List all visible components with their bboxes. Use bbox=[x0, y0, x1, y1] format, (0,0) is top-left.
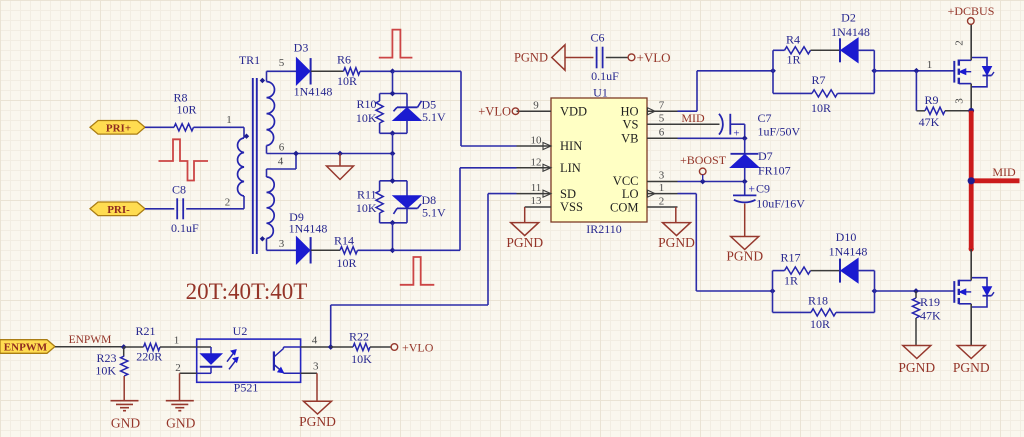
svg-text:R10: R10 bbox=[356, 97, 376, 111]
svg-text:3: 3 bbox=[279, 238, 285, 250]
svg-text:ENPWM: ENPWM bbox=[4, 342, 48, 354]
svg-text:7: 7 bbox=[659, 100, 665, 112]
svg-text:R17: R17 bbox=[780, 250, 800, 264]
svg-text:VB: VB bbox=[621, 132, 638, 146]
svg-text:PRI+: PRI+ bbox=[106, 122, 131, 134]
svg-text:VS: VS bbox=[623, 117, 639, 131]
svg-text:6: 6 bbox=[279, 142, 285, 154]
svg-text:10K: 10K bbox=[351, 352, 372, 366]
svg-text:R6: R6 bbox=[337, 53, 351, 67]
svg-text:C7: C7 bbox=[758, 111, 772, 125]
svg-text:2: 2 bbox=[659, 196, 665, 208]
svg-text:10K: 10K bbox=[356, 111, 377, 125]
svg-text:PGND: PGND bbox=[514, 51, 548, 65]
svg-text:MID: MID bbox=[681, 111, 705, 125]
svg-text:U2: U2 bbox=[233, 324, 248, 338]
svg-text:PGND: PGND bbox=[658, 235, 695, 250]
svg-text:MID: MID bbox=[992, 165, 1016, 179]
svg-text:D3: D3 bbox=[294, 41, 309, 55]
svg-text:IR2110: IR2110 bbox=[586, 222, 622, 236]
svg-text:R4: R4 bbox=[786, 33, 800, 47]
svg-text:1: 1 bbox=[174, 335, 180, 347]
svg-text:SD: SD bbox=[560, 187, 576, 201]
svg-text:4: 4 bbox=[278, 156, 284, 168]
svg-text:20T:40T:40T: 20T:40T:40T bbox=[186, 279, 308, 304]
svg-text:10: 10 bbox=[531, 135, 543, 147]
svg-text:1uF/50V: 1uF/50V bbox=[758, 125, 801, 139]
svg-text:R18: R18 bbox=[808, 294, 828, 308]
svg-text:12: 12 bbox=[531, 156, 542, 168]
svg-text:2: 2 bbox=[175, 362, 181, 374]
svg-text:4: 4 bbox=[312, 335, 318, 347]
svg-text:10K: 10K bbox=[95, 364, 116, 378]
svg-text:LO: LO bbox=[622, 187, 639, 201]
svg-text:+DCBUS: +DCBUS bbox=[948, 4, 995, 18]
svg-text:+VLO: +VLO bbox=[402, 341, 434, 355]
svg-text:11: 11 bbox=[531, 182, 542, 194]
svg-text:13: 13 bbox=[531, 195, 543, 207]
svg-text:PGND: PGND bbox=[898, 360, 935, 375]
svg-text:220R: 220R bbox=[136, 350, 162, 364]
svg-text:1R: 1R bbox=[784, 274, 798, 288]
svg-text:D10: D10 bbox=[836, 230, 857, 244]
svg-text:+VLO: +VLO bbox=[637, 50, 671, 65]
svg-text:0.1uF: 0.1uF bbox=[591, 69, 619, 83]
svg-text:C6: C6 bbox=[590, 31, 604, 45]
svg-text:5: 5 bbox=[279, 57, 285, 69]
svg-text:3: 3 bbox=[313, 360, 319, 372]
svg-text:COM: COM bbox=[610, 201, 638, 215]
svg-text:1N4148: 1N4148 bbox=[829, 245, 868, 259]
svg-text:R7: R7 bbox=[811, 73, 825, 87]
svg-text:1R: 1R bbox=[786, 53, 800, 67]
svg-text:1: 1 bbox=[659, 182, 665, 194]
svg-text:PGND: PGND bbox=[953, 360, 990, 375]
svg-text:10R: 10R bbox=[176, 103, 196, 117]
svg-text:10R: 10R bbox=[337, 74, 357, 88]
svg-text:10R: 10R bbox=[810, 317, 830, 331]
svg-text:HIN: HIN bbox=[560, 139, 582, 153]
svg-text:R19: R19 bbox=[920, 295, 940, 309]
svg-text:0.1uF: 0.1uF bbox=[171, 221, 199, 235]
svg-text:5.1V: 5.1V bbox=[422, 110, 446, 124]
svg-text:10R: 10R bbox=[336, 256, 356, 270]
svg-text:PGND: PGND bbox=[299, 414, 336, 429]
svg-text:R9: R9 bbox=[924, 93, 938, 107]
svg-text:TR1: TR1 bbox=[239, 53, 260, 67]
svg-text:10uF/16V: 10uF/16V bbox=[756, 197, 805, 211]
svg-text:D7: D7 bbox=[758, 149, 773, 163]
svg-text:1: 1 bbox=[927, 59, 933, 71]
svg-text:D2: D2 bbox=[841, 11, 856, 25]
svg-text:1: 1 bbox=[226, 114, 232, 126]
svg-text:PRI-: PRI- bbox=[107, 204, 130, 216]
svg-text:PGND: PGND bbox=[506, 235, 543, 250]
svg-text:U1: U1 bbox=[593, 86, 608, 100]
svg-text:LIN: LIN bbox=[560, 161, 581, 175]
svg-text:3: 3 bbox=[659, 170, 665, 182]
svg-text:R11: R11 bbox=[357, 187, 377, 201]
svg-text:+: + bbox=[749, 183, 756, 195]
svg-text:C8: C8 bbox=[172, 183, 186, 197]
svg-text:P521: P521 bbox=[234, 381, 259, 395]
svg-text:2: 2 bbox=[225, 197, 231, 209]
svg-text:ENPWM: ENPWM bbox=[69, 334, 112, 346]
svg-text:GND: GND bbox=[111, 416, 140, 431]
svg-text:VSS: VSS bbox=[560, 200, 583, 214]
svg-text:6: 6 bbox=[659, 127, 665, 139]
svg-text:GND: GND bbox=[166, 416, 195, 431]
svg-text:+BOOST: +BOOST bbox=[680, 153, 727, 167]
svg-text:R22: R22 bbox=[349, 330, 369, 344]
svg-text:PGND: PGND bbox=[726, 249, 763, 264]
svg-text:9: 9 bbox=[533, 100, 539, 112]
svg-text:HO: HO bbox=[620, 104, 638, 118]
svg-text:2: 2 bbox=[954, 40, 966, 46]
svg-text:C9: C9 bbox=[756, 181, 770, 195]
svg-text:10R: 10R bbox=[811, 101, 831, 115]
svg-text:R21: R21 bbox=[135, 324, 155, 338]
svg-text:47K: 47K bbox=[920, 309, 941, 323]
svg-text:+VLO: +VLO bbox=[478, 105, 511, 119]
svg-text:VDD: VDD bbox=[560, 104, 587, 118]
svg-text:5.1V: 5.1V bbox=[422, 206, 446, 220]
svg-text:47K: 47K bbox=[919, 115, 940, 129]
svg-text:3: 3 bbox=[954, 98, 966, 104]
svg-text:R14: R14 bbox=[334, 234, 354, 248]
svg-text:10K: 10K bbox=[356, 201, 377, 215]
svg-text:1N4148: 1N4148 bbox=[831, 25, 870, 39]
svg-text:FR107: FR107 bbox=[758, 164, 791, 178]
svg-text:1N4148: 1N4148 bbox=[294, 85, 333, 99]
svg-text:5: 5 bbox=[659, 113, 665, 125]
svg-text:1N4148: 1N4148 bbox=[289, 221, 328, 235]
